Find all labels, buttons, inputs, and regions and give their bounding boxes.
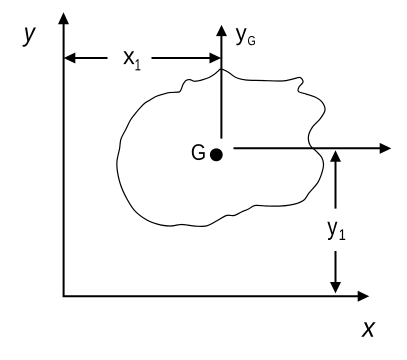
y axis label <box>23 28 37 47</box>
centroid dot G <box>210 148 223 161</box>
blob outline <box>117 69 325 226</box>
y_G label <box>236 28 255 45</box>
dimension y1: bottom arrow (points down) <box>330 251 341 293</box>
y_G axis <box>216 25 227 139</box>
dimension y1: top arrow (points up) <box>330 150 341 208</box>
x1 label <box>123 51 140 70</box>
y-axis <box>58 12 69 296</box>
x axis label <box>361 322 376 337</box>
dimension x1: right arrow <box>152 53 222 64</box>
G label <box>192 144 205 160</box>
dimension x1: left arrow <box>64 53 108 64</box>
x-axis <box>63 291 370 302</box>
y1 label <box>327 222 345 240</box>
x_G horizontal arrow through G <box>234 143 392 154</box>
